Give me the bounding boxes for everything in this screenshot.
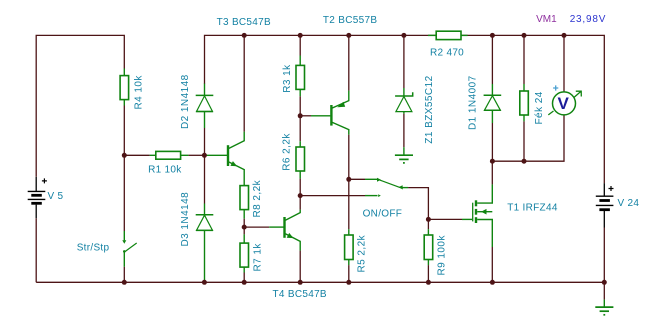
svg-text:D3 1N4148: D3 1N4148 [180, 192, 191, 247]
switch SW2 ON/OFF [365, 179, 408, 195]
svg-text:Z1 BZX55C12: Z1 BZX55C12 [424, 75, 435, 143]
wire top rail [205, 35, 605, 183]
svg-text:T4 BC547B: T4 BC547B [273, 289, 327, 300]
svg-text:V: V [558, 94, 570, 113]
battery V2 (V 24) [596, 183, 614, 227]
wire switch to gate corner [408, 188, 428, 220]
junction dots bottom rail [122, 280, 607, 285]
svg-text:Str/Stp: Str/Stp [77, 242, 110, 253]
wire T4 emitter to bottom rail [299, 251, 301, 283]
wire D2 top [204, 83, 206, 85]
wire node G to T1 gate [428, 218, 462, 220]
wire node C to open contact [300, 195, 365, 197]
resistor R7 [240, 234, 249, 272]
wire node D to D3 [204, 155, 206, 203]
switch ON/OFF left contact arrow [377, 178, 381, 182]
svg-text:D1 1N4007: D1 1N4007 [468, 75, 479, 130]
wire D3 to bottom rail [204, 280, 206, 282]
wire switch to bottom rail [123, 267, 125, 283]
transistor T4 BC547B [269, 210, 300, 251]
svg-text:T1 IRFZ44: T1 IRFZ44 [507, 203, 558, 214]
svg-text:D2 1N4148: D2 1N4148 [180, 74, 191, 129]
transistor T1 IRFZ44 MOSFET [462, 184, 492, 247]
wire top rail to R3 [299, 35, 301, 55]
wire R7 to bottom rail [243, 273, 245, 283]
wire T1 source to bottom rail [491, 247, 493, 282]
wire left column bottom [35, 218, 37, 282]
wire top rail to D1 [491, 35, 493, 84]
resistor R1 [150, 151, 189, 159]
svg-text:R2 470: R2 470 [430, 48, 464, 59]
svg-text:VM1: VM1 [536, 14, 557, 25]
wire R4 to node [123, 106, 125, 156]
svg-text:V 24: V 24 [618, 198, 640, 209]
wire T2 emitter to top rail [348, 35, 350, 90]
wire node to R1 [124, 154, 149, 156]
wire R1 to node D [189, 154, 205, 156]
svg-text:R8 2,2k: R8 2,2k [252, 179, 263, 217]
svg-text:T2 BC557B: T2 BC557B [323, 15, 377, 26]
svg-text:R4 10k: R4 10k [134, 75, 145, 110]
switch Str/Stp pivot [123, 250, 126, 253]
wire R5 to bottom rail [348, 265, 350, 282]
wire top rail to Z1 [403, 35, 405, 88]
svg-text:R6 2,2k: R6 2,2k [282, 133, 293, 171]
svg-text:ON/OFF: ON/OFF [363, 209, 403, 220]
diode D3 1N4148 [196, 204, 214, 281]
wire Z1 to ground [403, 114, 405, 147]
resistor R2 [428, 31, 468, 39]
svg-text:R3 1k: R3 1k [282, 64, 293, 93]
wire T2 collector to node F [348, 135, 350, 180]
wire R8 to node B [243, 219, 245, 227]
junction dots top rail [242, 33, 567, 38]
switch Str/Stp contact arrow [122, 240, 126, 244]
wire node B to R7 [243, 227, 245, 234]
voltmeter plus sign [553, 85, 558, 90]
wire D1 to node H [491, 123, 493, 161]
svg-text:Fék 24: Fék 24 [534, 91, 545, 124]
diode D2 1N4148 [196, 84, 214, 128]
resistor R5 [345, 229, 354, 265]
wire T3 collector to top rail [243, 35, 245, 131]
wire Fek to node H wire [523, 121, 525, 161]
transistor T2 emitter arrow [337, 102, 345, 107]
wire T4 collector to node C [299, 196, 301, 210]
wire T1 drain up [491, 161, 493, 184]
transistor T1 body arrow [481, 209, 486, 215]
wire node E to T2 base [300, 115, 311, 117]
ground bottom right [595, 300, 613, 315]
svg-text:V 5: V 5 [48, 191, 64, 202]
resistor R8 [240, 186, 249, 219]
wire node F to switch ON/OFF [349, 178, 365, 180]
svg-text:T3 BC547B: T3 BC547B [217, 17, 271, 28]
ground below Z1 [395, 147, 413, 163]
resistor R4 [120, 69, 129, 106]
battery V1 (V 5) [28, 177, 47, 218]
wire bottom rail [36, 281, 604, 283]
switch ON/OFF right contact arrow [398, 185, 403, 189]
wire R3 to node E [299, 96, 301, 116]
resistor R6 [296, 141, 305, 178]
svg-text:R7 1k: R7 1k [253, 243, 264, 272]
wire left loop V5 to R4 [36, 35, 124, 176]
svg-text:R1 10k: R1 10k [148, 164, 182, 175]
transistor T3 BC547B [206, 132, 244, 186]
wire node B to T4 base [244, 226, 269, 228]
svg-text:R5 2,2k: R5 2,2k [357, 234, 368, 272]
wire R6 to node C [299, 179, 301, 196]
zener diode Z1 BZX55C12 [395, 88, 413, 114]
transistor T4 emitter arrow [287, 233, 294, 238]
transistor T2 BC557B [311, 91, 349, 135]
svg-text:R9 100k: R9 100k [437, 235, 448, 276]
wire V24 to bottom rail [603, 228, 605, 283]
wire R9 to bottom rail [427, 265, 429, 282]
junction dots middle [122, 113, 527, 229]
wire bottom rail to ground [603, 282, 605, 299]
switch SW1 Str/Stp [124, 231, 136, 267]
transistor T3 emitter arrow [230, 161, 237, 166]
resistor R9 [424, 229, 433, 265]
wire node H to VM corner [492, 115, 564, 161]
wire node G to R9 [427, 219, 429, 229]
diode D1 1N4007 [484, 84, 502, 123]
wire top rail to voltmeter [563, 35, 565, 92]
wire node down to switch [123, 155, 125, 231]
resistor R3 [296, 56, 305, 97]
resistor Fek 24 [520, 84, 529, 121]
voltmeter VM1 [548, 91, 581, 115]
wire top rail to Fek [523, 35, 525, 84]
switch ON/OFF open contact mark [378, 194, 381, 197]
wire node F to R5 [348, 179, 350, 229]
wire D2 to node D [204, 128, 206, 155]
wire node E to R6 [299, 116, 301, 141]
svg-text:23,98V: 23,98V [570, 14, 607, 25]
